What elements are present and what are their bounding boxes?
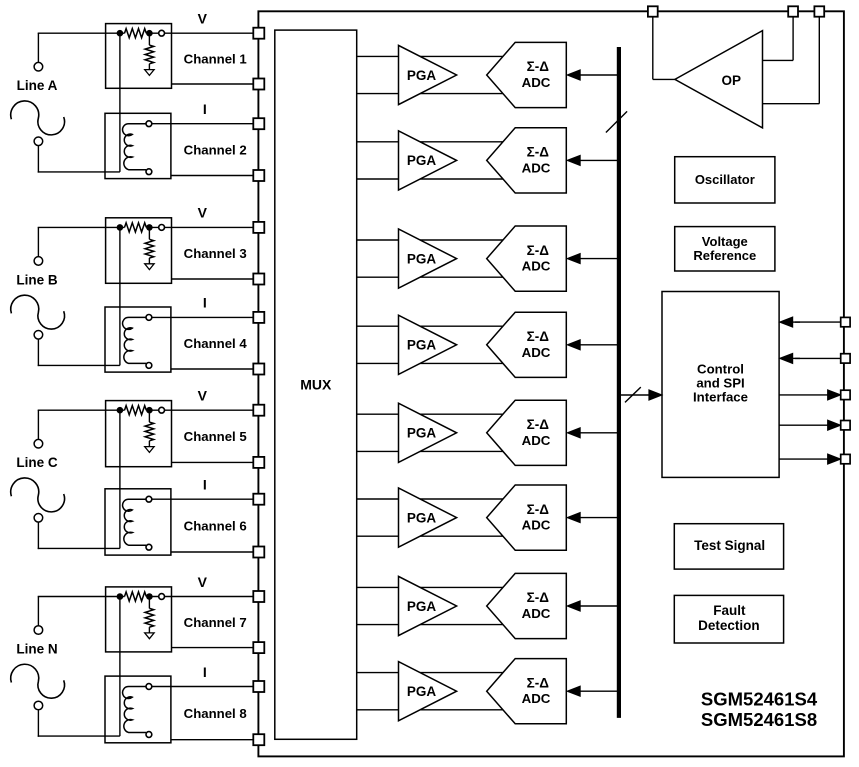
svg-text:Line N: Line N [16, 642, 57, 657]
svg-text:Reference: Reference [693, 248, 756, 263]
pin: channel 4 + input [253, 312, 264, 323]
pin: channel 6 - input [253, 547, 264, 558]
pin: right edge y=425.2 [841, 421, 850, 430]
pin: top edge x=652.8 [648, 6, 658, 16]
svg-text:Σ-Δ: Σ-Δ [527, 329, 550, 344]
svg-text:Fault: Fault [713, 603, 746, 618]
pin: channel 5 - input [253, 457, 264, 468]
wire from divider tap to output circle and channel V+ pin [146, 409, 254, 411]
wire+arrow: bus to ADC5 [578, 432, 619, 434]
svg-text:V: V [198, 205, 208, 221]
wire: channel I- from sensor box to pin [172, 739, 255, 741]
wire+arrow: right pin into Control/SPI (input 1) [795, 321, 841, 323]
coil top terminal circle [146, 121, 152, 127]
wire: MUX to PGA1 / ADC1 differential pair [357, 55, 520, 57]
ground arrow under divider [145, 633, 154, 639]
ADC7 sigma-delta converter [487, 573, 567, 638]
wire+arrow: bus to ADC7 [578, 605, 619, 607]
svg-text:Σ-Δ: Σ-Δ [527, 590, 550, 605]
coil bottom terminal circle [146, 544, 152, 550]
svg-text:I: I [203, 295, 207, 311]
resistor (shunt) of divider [148, 36, 150, 45]
svg-text:Σ-Δ: Σ-Δ [527, 243, 550, 258]
svg-text:ADC: ADC [522, 518, 551, 533]
pin: channel 7 - input [253, 642, 264, 653]
coil bottom terminal circle [146, 732, 152, 738]
voltage divider sensor box (Channel 1) [106, 24, 172, 89]
wire+arrow: right pin into Control/SPI (input 2) [795, 357, 841, 359]
wire: channel V- from sensor box to pin [172, 83, 255, 85]
PGA1 amplifier [399, 45, 457, 104]
node dot: divider tap [146, 30, 153, 37]
pin: channel 2 - input [253, 170, 264, 181]
wire: OP output 2 to top pin [763, 103, 820, 105]
coil top terminal circle [146, 684, 152, 690]
wire: channel I+ from coil to pin [152, 123, 255, 125]
svg-text:OP: OP [721, 73, 741, 88]
pin: channel 3 - input [253, 274, 264, 285]
svg-text:Detection: Detection [698, 618, 760, 633]
current transformer sensor box (Channel 8) [105, 676, 171, 743]
ADC5 sigma-delta converter [487, 400, 567, 465]
svg-text:PGA: PGA [407, 599, 437, 614]
ground arrow under divider [145, 264, 154, 270]
pin: channel 1 + input [253, 28, 264, 39]
node dot: divider tap [146, 224, 153, 231]
svg-text:V: V [198, 388, 208, 404]
ground arrow under divider [145, 447, 154, 453]
voltage divider sensor box (Channel 7) [106, 587, 172, 652]
transformer secondary coil [123, 317, 147, 363]
svg-text:ADC: ADC [522, 75, 551, 90]
AC source Line C: bottom terminal [34, 514, 43, 523]
AC source Line A: bottom terminal [34, 137, 43, 146]
PGA7 amplifier [399, 576, 457, 635]
digital bus (thick vertical line) [617, 47, 621, 718]
PGA4 amplifier [399, 315, 457, 374]
wire+arrow: Control/SPI output 3 to right pin [779, 458, 828, 460]
ground arrow under divider [145, 70, 154, 76]
svg-text:SGM52461S4: SGM52461S4 [701, 689, 818, 710]
AC source Line B: bottom terminal [34, 331, 43, 340]
ADC3 sigma-delta converter [487, 226, 567, 291]
transformer secondary coil [123, 124, 147, 170]
svg-text:PGA: PGA [407, 426, 437, 441]
pin: channel 4 - input [253, 364, 264, 375]
wire: Line C return from transformer to bottom terminal [38, 547, 120, 549]
resistor (series) in divider [125, 592, 147, 601]
wire+arrow: bus to ADC6 [578, 517, 619, 519]
op-amp OP [675, 31, 763, 128]
svg-text:Interface: Interface [693, 390, 748, 405]
svg-text:PGA: PGA [407, 510, 437, 525]
output terminal circle of divider [159, 225, 165, 231]
Voltage Reference block [675, 227, 775, 271]
wire: MUX to PGA3 / ADC3 differential pair [357, 239, 520, 241]
wire: channel I+ from coil to pin [152, 498, 255, 500]
wire: MUX to PGA7 / ADC7 differential pair [357, 586, 520, 588]
svg-text:Channel 5: Channel 5 [184, 429, 247, 444]
svg-text:Line B: Line B [16, 272, 58, 287]
coil top terminal circle [146, 496, 152, 502]
svg-text:Σ-Δ: Σ-Δ [527, 145, 550, 160]
wire: channel V- from sensor box to pin [172, 461, 255, 463]
node dot: divider input [117, 407, 124, 414]
svg-text:Control: Control [697, 361, 744, 376]
wire: channel V- from sensor box to pin [172, 278, 255, 280]
AC source Line B: top terminal [34, 257, 43, 266]
node dot: divider input [117, 224, 124, 231]
transformer secondary coil [123, 686, 147, 732]
current transformer sensor box (Channel 2) [105, 113, 171, 178]
transformer secondary coil [123, 499, 147, 545]
svg-text:I: I [203, 664, 207, 680]
coil top terminal circle [146, 315, 152, 321]
voltage divider sensor box (Channel 3) [106, 218, 172, 283]
output terminal circle of divider [159, 30, 165, 36]
resistor (shunt) of divider [148, 600, 150, 609]
wire: Line B top terminal to voltage divider node [37, 227, 39, 256]
wire: MUX to PGA2 / ADC2 differential pair [357, 141, 520, 143]
pin: top edge x=793.1 [788, 6, 798, 16]
coil bottom terminal circle [146, 363, 152, 369]
chip outline SGM52461 [258, 11, 844, 756]
pin: channel 8 - input [253, 734, 264, 745]
wire: channel I+ from coil to pin [152, 316, 255, 318]
pin: right edge y=322.1 [841, 317, 850, 326]
coil bottom terminal circle [146, 169, 152, 175]
Fault Detection block [674, 595, 783, 643]
pin: top edge x=819.3 [814, 6, 824, 16]
svg-text:Test Signal: Test Signal [694, 538, 765, 553]
wire+arrow: bus to ADC8 [578, 690, 619, 692]
pin: right edge y=459.1 [841, 454, 850, 463]
svg-text:ADC: ADC [522, 345, 551, 360]
pin: channel 6 + input [253, 494, 264, 505]
svg-text:Line C: Line C [16, 455, 58, 470]
AC source Line A: sine waveform [11, 101, 65, 135]
output terminal circle of divider [159, 407, 165, 413]
pin: channel 3 + input [253, 222, 264, 233]
wire+arrow: Control/SPI output 2 to right pin [779, 424, 828, 426]
wire: Line B return from transformer to bottom terminal [38, 364, 120, 366]
node dot: divider input [117, 30, 124, 37]
Control and SPI Interface block [662, 292, 779, 478]
output terminal circle of divider [159, 594, 165, 600]
wire: Line N top terminal to voltage divider node [37, 597, 39, 626]
wire: OP output 1 to top pin [763, 59, 794, 61]
resistor (series) in divider [125, 29, 147, 38]
svg-text:I: I [203, 477, 207, 493]
pin: right edge y=358.4 [841, 354, 850, 363]
wire: primary conductor through current transformer [119, 597, 121, 737]
wire: Line C top terminal to voltage divider node [37, 410, 39, 439]
resistor (series) in divider [125, 406, 147, 415]
voltage divider sensor box (Channel 5) [106, 401, 172, 467]
PGA3 amplifier [399, 229, 457, 288]
svg-text:Oscillator: Oscillator [695, 172, 755, 187]
wire: primary conductor through current transformer [119, 410, 121, 548]
node dot: divider input [117, 593, 124, 600]
PGA5 amplifier [399, 403, 457, 462]
resistor (series) in divider [125, 223, 147, 232]
wire: top pin to OP input [652, 17, 654, 80]
ADC6 sigma-delta converter [487, 485, 567, 550]
svg-text:Channel 1: Channel 1 [184, 51, 247, 66]
pin: channel 2 + input [253, 118, 264, 129]
wire from divider tap to output circle and channel V+ pin [146, 32, 254, 34]
current transformer sensor box (Channel 6) [105, 489, 171, 555]
svg-text:Channel 2: Channel 2 [184, 142, 247, 157]
node dot: divider tap [146, 593, 153, 600]
AC source Line C: top terminal [34, 439, 43, 448]
svg-text:MUX: MUX [300, 376, 332, 392]
AC source Line N: top terminal [34, 626, 43, 635]
Oscillator block [675, 157, 775, 203]
ADC1 sigma-delta converter [487, 42, 567, 107]
svg-text:V: V [198, 574, 208, 590]
svg-text:V: V [198, 11, 208, 27]
svg-text:PGA: PGA [407, 153, 437, 168]
node dot: divider tap [146, 407, 153, 414]
pin: channel 8 + input [253, 681, 264, 692]
bus width slash (top) [606, 111, 627, 132]
wire: Line N return from transformer to bottom terminal [38, 735, 120, 737]
wire+arrow: Control/SPI output 1 to right pin [779, 394, 828, 396]
AC source Line A: top terminal [34, 62, 43, 71]
Test Signal block [674, 524, 783, 569]
wire from divider tap to output circle and channel V+ pin [146, 596, 254, 598]
svg-text:Σ-Δ: Σ-Δ [527, 502, 550, 517]
PGA8 amplifier [399, 662, 457, 721]
svg-text:Σ-Δ: Σ-Δ [527, 417, 550, 432]
wire: MUX to PGA4 / ADC4 differential pair [357, 325, 520, 327]
svg-text:Channel 6: Channel 6 [184, 518, 247, 533]
svg-text:Σ-Δ: Σ-Δ [527, 675, 550, 690]
AC source Line N: sine waveform [11, 664, 65, 698]
wire: MUX to PGA5 / ADC5 differential pair [357, 413, 520, 415]
svg-text:ADC: ADC [522, 259, 551, 274]
wire: primary conductor through current transformer [119, 33, 121, 172]
wire from divider tap to output circle and channel V+ pin [146, 226, 254, 228]
wire: Line A top terminal to voltage divider node [37, 33, 39, 62]
svg-text:ADC: ADC [522, 160, 551, 175]
svg-text:Line A: Line A [17, 78, 58, 93]
wire: channel V- from sensor box to pin [172, 647, 255, 649]
wire: MUX to PGA6 / ADC6 differential pair [357, 498, 520, 500]
bus width slash (control) [625, 387, 641, 402]
wire+arrow: bus to ADC4 [578, 344, 619, 346]
wire: channel I+ from coil to pin [152, 686, 255, 688]
pin: right edge y=394.9 [841, 390, 850, 399]
wire: channel I- from sensor box to pin [172, 175, 255, 177]
svg-text:and SPI: and SPI [696, 376, 744, 391]
PGA2 amplifier [399, 131, 457, 190]
ADC8 sigma-delta converter [487, 659, 567, 724]
svg-text:Voltage: Voltage [702, 234, 748, 249]
wire: channel I- from sensor box to pin [172, 551, 255, 553]
svg-text:PGA: PGA [407, 251, 437, 266]
wire: channel I- from sensor box to pin [172, 368, 255, 370]
wire+arrow: bus to ADC1 [578, 74, 619, 76]
pin: channel 7 + input [253, 591, 264, 602]
svg-text:Channel 3: Channel 3 [184, 246, 247, 261]
svg-text:Channel 7: Channel 7 [184, 615, 247, 630]
PGA6 amplifier [399, 488, 457, 547]
svg-text:SGM52461S8: SGM52461S8 [701, 709, 817, 730]
svg-text:PGA: PGA [407, 338, 437, 353]
AC source Line N: bottom terminal [34, 701, 43, 710]
wire+arrow: bus to ADC3 [578, 258, 619, 260]
svg-text:I: I [203, 101, 207, 117]
pin: channel 5 + input [253, 405, 264, 416]
svg-text:Σ-Δ: Σ-Δ [527, 59, 550, 74]
svg-text:ADC: ADC [522, 606, 551, 621]
svg-text:ADC: ADC [522, 691, 551, 706]
pin: channel 1 - input [253, 79, 264, 90]
svg-text:Channel 4: Channel 4 [184, 336, 248, 351]
wire: primary conductor through current transformer [119, 227, 121, 365]
resistor (shunt) of divider [148, 413, 150, 422]
AC source Line C: sine waveform [11, 478, 65, 512]
AC source Line B: sine waveform [11, 295, 65, 329]
wire+arrow: bus to ADC2 [578, 159, 619, 161]
wire+arrow: bus to Control/SPI interface [621, 394, 649, 396]
MUX block [275, 30, 357, 739]
resistor (shunt) of divider [148, 230, 150, 239]
ADC2 sigma-delta converter [487, 128, 567, 193]
svg-text:PGA: PGA [407, 684, 437, 699]
wire: Line A return from transformer to bottom terminal [38, 171, 120, 173]
svg-text:ADC: ADC [522, 433, 551, 448]
wire: MUX to PGA8 / ADC8 differential pair [357, 672, 520, 674]
svg-text:PGA: PGA [407, 68, 437, 83]
ADC4 sigma-delta converter [487, 312, 567, 377]
current transformer sensor box (Channel 4) [105, 307, 171, 372]
svg-text:Channel 8: Channel 8 [184, 706, 247, 721]
